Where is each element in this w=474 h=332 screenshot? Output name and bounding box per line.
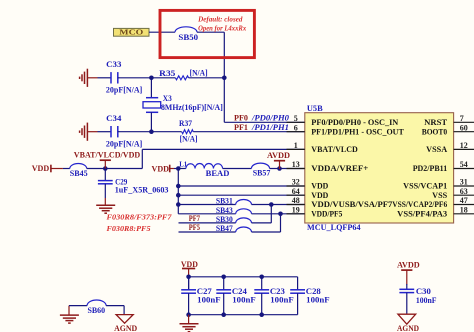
wire MCO to SB50 (149, 31, 175, 33)
U5B pin 31 VSS/VCAP1 (right) (454, 185, 474, 187)
crystal X3 (150, 78, 152, 98)
svg-text:1: 1 (294, 141, 298, 150)
svg-text:SB45: SB45 (70, 169, 88, 178)
wire SB30 riser to row 48 (252, 222, 272, 224)
svg-text:R37: R37 (179, 119, 192, 128)
wire L1 to SB57 (223, 168, 252, 170)
solder bridge SB50 (175, 27, 197, 32)
svg-text:SB60: SB60 (88, 306, 106, 315)
svg-text:SB31: SB31 (216, 197, 233, 206)
svg-text:PF5: PF5 (189, 223, 200, 232)
svg-text:VDDA/VREF+: VDDA/VREF+ (311, 164, 368, 173)
svg-text:31: 31 (460, 178, 468, 187)
svg-text:12: 12 (460, 141, 468, 150)
wire PF7 to SB30 (179, 222, 236, 224)
svg-text:L1: L1 (179, 159, 187, 168)
node (PF5 riser on row 19) (278, 212, 283, 217)
node (PF7 riser on row 48) (269, 202, 274, 207)
solder bridge SB30 (236, 218, 252, 223)
svg-text:AGND: AGND (114, 324, 137, 332)
svg-text:[N/A]: [N/A] (180, 134, 198, 143)
U5B pin 18 VSS/PF4/PA3 (right) (454, 213, 474, 215)
node (bus row 64) (176, 193, 181, 198)
wire SB45 to bend, up to pin 1 (87, 168, 143, 170)
U5B pin 12 VSSA (right) (454, 148, 474, 150)
svg-text:Open for L4xxRx: Open for L4xxRx (198, 24, 246, 33)
svg-text:100nF: 100nF (232, 296, 255, 305)
svg-text:100nF: 100nF (416, 296, 437, 305)
svg-text:X3: X3 (163, 94, 172, 103)
svg-text:63: 63 (460, 187, 468, 196)
svg-text:48: 48 (292, 196, 300, 205)
wire ground to SB60 (69, 305, 87, 307)
annotation box (red, default-closed note) (160, 10, 254, 57)
MCU U5B (MCU_LQFP64) (305, 113, 454, 223)
svg-text:47: 47 (460, 196, 468, 205)
svg-text:NRST: NRST (424, 118, 448, 127)
wire VDD to L1 (174, 168, 186, 170)
wire bottom rail (189, 314, 298, 316)
svg-text:PF7: PF7 (189, 214, 200, 223)
capacitor C30 100nF (406, 284, 408, 289)
wire SB31 to pin 48 (252, 204, 305, 206)
ground (at C34) (86, 123, 88, 141)
wire SB60 to AGND (106, 305, 124, 307)
svg-text:VSS/VCAP1: VSS/VCAP1 (403, 182, 447, 191)
solder bridge SB43 (236, 209, 252, 214)
svg-text:Default: closed: Default: closed (197, 14, 243, 23)
wire C29 to ground (104, 184, 106, 198)
solder bridge SB57 (251, 163, 269, 168)
wire bus to SB31 (178, 204, 235, 206)
capacitor C34 (110, 126, 112, 137)
wire node to pin 5 (224, 121, 304, 123)
svg-text:54: 54 (460, 160, 468, 169)
svg-text:VDD: VDD (32, 164, 50, 173)
U5B pin 64 VDD (left) (287, 194, 305, 196)
capacitor C23 100nF (261, 277, 263, 290)
solder bridge SB45 (70, 164, 87, 169)
wire to pin 32 (178, 185, 304, 187)
svg-text:VSS/VCAP2/PF6: VSS/VCAP2/PF6 (392, 200, 447, 209)
ground (at SB60) (68, 306, 70, 316)
node (bus tap at L1) (176, 166, 181, 171)
ground (under C29) (96, 204, 115, 206)
wire VDD bus (vertical) (177, 169, 179, 214)
wire to pin 64 (178, 194, 304, 196)
wire C34 to node (118, 131, 152, 133)
capacitor C28 100nF (297, 277, 299, 290)
svg-text:20pF[N/A]: 20pF[N/A] (106, 86, 143, 95)
svg-text:BOOT0: BOOT0 (422, 127, 448, 136)
svg-text:20pF[N/A]: 20pF[N/A] (106, 139, 143, 148)
U5B pin 60 BOOT0 (right) (454, 131, 474, 133)
svg-text:VSSA: VSSA (426, 145, 447, 154)
svg-text:MCO: MCO (119, 28, 143, 37)
svg-text:18: 18 (460, 206, 468, 215)
svg-text:19: 19 (292, 206, 300, 215)
node (C33/R35/X3) (149, 76, 154, 81)
resistor R37 (182, 130, 194, 134)
U5B pin 19 VDD/PF5 (left) (287, 213, 305, 215)
svg-text:PF1/PD1/PH1 - OSC_OUT: PF1/PD1/PH1 - OSC_OUT (311, 127, 404, 136)
capacitor C27 100nF (188, 277, 190, 290)
resistor R35 (175, 76, 188, 80)
node (bus row 48) (176, 202, 181, 207)
wire ground to C34 (98, 131, 112, 133)
svg-text:VSS/PF4/PA3: VSS/PF4/PA3 (397, 209, 447, 218)
wire SB57 to pin 13 (270, 168, 305, 170)
svg-text:C33: C33 (106, 60, 121, 69)
svg-text:PF0: PF0 (234, 114, 248, 123)
wire bus corner to SB43 (178, 213, 235, 215)
solder bridge SB47 (236, 227, 252, 232)
svg-text:U5B: U5B (307, 104, 323, 113)
svg-text:SB47: SB47 (216, 224, 233, 233)
svg-text:/PD1/PH1: /PD1/PH1 (251, 123, 289, 132)
U5B pin 13 VDDA/VREF+ (left) (287, 168, 305, 170)
wire top rail (189, 276, 298, 278)
svg-text:PF1: PF1 (234, 123, 248, 132)
svg-text:MCU_LQFP64: MCU_LQFP64 (307, 223, 361, 232)
svg-text:BEAD: BEAD (206, 169, 230, 178)
wire SB47 riser to row 19 (252, 231, 281, 233)
svg-text:5: 5 (294, 114, 298, 123)
svg-text:7: 7 (460, 114, 464, 123)
svg-text:100nF: 100nF (306, 296, 329, 305)
svg-text:VBAT/VLCD: VBAT/VLCD (311, 145, 358, 154)
capacitor C29 (104, 169, 106, 181)
U5B pin 54 PD2/PB11 (right) (454, 168, 474, 170)
wire PF5 to SB47 (179, 231, 236, 233)
inductor L1 BEAD (186, 164, 223, 169)
svg-text:PF0/PD0/PH0 - OSC_IN: PF0/PD0/PH0 - OSC_IN (311, 118, 398, 127)
wire SB50 to OSC_IN node (197, 31, 224, 33)
capacitor C24 100nF (223, 277, 225, 290)
capacitor C33 (110, 72, 112, 83)
svg-text:AVDD: AVDD (267, 151, 290, 160)
svg-text:13: 13 (292, 160, 300, 169)
ground (at C33) (86, 69, 88, 87)
port MCO (114, 28, 150, 36)
U5B pin 63 VSS (right) (454, 194, 474, 196)
svg-text:VDD: VDD (152, 164, 170, 173)
svg-text:VDD: VDD (311, 191, 328, 200)
ground (under C27) (188, 315, 190, 324)
U5B pin 7 NRST (right) (454, 121, 474, 123)
svg-text:C34: C34 (106, 114, 121, 123)
svg-text:AGND: AGND (397, 324, 419, 332)
svg-text:100nF: 100nF (197, 296, 220, 305)
U5B pin 5 PF0/PD0/PH0 - OSC_IN (left) (287, 121, 305, 123)
U5B pin 6 PF1/PD1/PH1 - OSC_OUT (left) (287, 131, 305, 133)
node (bus row 32) (176, 184, 181, 189)
svg-text:F030R8:PF5: F030R8:PF5 (107, 224, 151, 233)
svg-text:VSS: VSS (432, 191, 448, 200)
svg-text:/PD0/PH0: /PD0/PH0 (251, 114, 289, 123)
wire ground to C33 (98, 77, 112, 79)
svg-text:VDD/PF5: VDD/PF5 (311, 209, 342, 218)
solder bridge SB60 (87, 300, 106, 306)
wire R35 to SB50 node (189, 77, 225, 79)
svg-text:F030R8/F373:PF7: F030R8/F373:PF7 (107, 213, 173, 222)
node (R35/SB50 wire junction) (222, 76, 227, 81)
svg-text:SB50: SB50 (178, 33, 198, 42)
node (VBAT junction) (103, 166, 108, 171)
svg-text:32: 32 (292, 178, 300, 187)
wire SB43 to pin 19 (252, 213, 305, 215)
solder bridge SB31 (236, 200, 252, 205)
wire C33 to node (118, 77, 152, 79)
wire R37 to pin 6 (193, 131, 304, 133)
svg-text:PD2/PB11: PD2/PB11 (413, 164, 448, 173)
node (C34/R37/X3) (149, 129, 154, 134)
svg-text:1uF_X5R_0603: 1uF_X5R_0603 (115, 186, 169, 195)
svg-text:VDD: VDD (311, 182, 328, 191)
svg-text:AVDD: AVDD (397, 260, 420, 269)
U5B pin 47 VSS/VCAP2/PF6 (right) (454, 204, 474, 206)
U5B pin 32 VDD (left) (287, 185, 305, 187)
svg-text:8MHz(16pF)[N/A]: 8MHz(16pF)[N/A] (161, 103, 223, 112)
svg-text:SB57: SB57 (253, 169, 271, 178)
svg-text:60: 60 (460, 123, 468, 132)
svg-text:6: 6 (294, 123, 298, 132)
wire VDD to top rail (188, 277, 190, 290)
U5B pin 48 VDD/VUSB/VSA/PF7 (left) (287, 204, 305, 206)
wire VDD to SB45 (63, 168, 70, 170)
svg-text:[N/A]: [N/A] (190, 69, 208, 78)
power port AGND (triangle) (116, 315, 133, 324)
svg-text:SB43: SB43 (216, 206, 233, 215)
power port AGND (triangle, right) (398, 314, 416, 324)
svg-text:C30: C30 (416, 287, 431, 296)
svg-text:R35: R35 (159, 69, 175, 78)
wire C30 to AGND (406, 293, 408, 315)
U5B pin 1 VBAT/VLCD (left) (287, 148, 305, 150)
svg-text:VDD/VUSB/VSA/PF7: VDD/VUSB/VSA/PF7 (311, 200, 392, 209)
node (AVDD junction) (277, 166, 282, 171)
svg-text:SB30: SB30 (216, 215, 233, 224)
svg-text:100nF: 100nF (270, 296, 293, 305)
svg-text:64: 64 (292, 187, 300, 196)
svg-text:VBAT/VLCD/VDD: VBAT/VLCD/VDD (74, 151, 140, 160)
